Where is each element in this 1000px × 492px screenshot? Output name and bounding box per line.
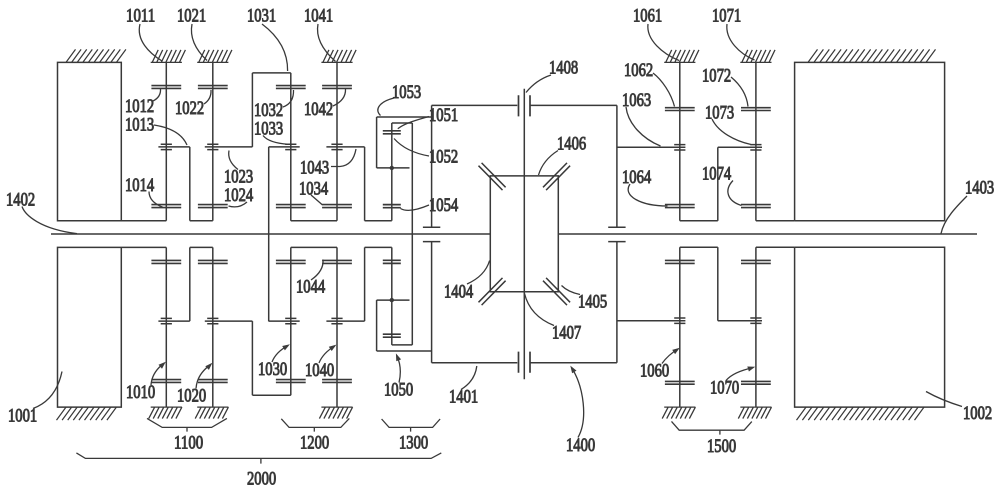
wire sleeve 1043 vertical bbox=[364, 147, 366, 221]
motor block 1001 housing bbox=[58, 247, 167, 407]
synchronizer 1040 bbox=[326, 318, 364, 323]
shaft 1020 bbox=[212, 247, 214, 407]
wire clutch top link bbox=[392, 122, 413, 124]
clutch 1050 plates lower bbox=[383, 334, 401, 337]
wire sleeve 1043 bottom bbox=[365, 220, 392, 222]
svg-text:1402: 1402 bbox=[6, 189, 35, 210]
wire shaft 1071 to right block bbox=[756, 220, 795, 222]
svg-text:1052: 1052 bbox=[429, 146, 458, 167]
synchronizer 1013 bbox=[158, 144, 189, 149]
gear on 1060 upper bbox=[665, 260, 695, 263]
svg-text:1070: 1070 bbox=[710, 377, 739, 398]
wire U-top 1060 bbox=[680, 246, 718, 248]
gear 1042 bbox=[322, 86, 352, 89]
wire clutch mid link bbox=[377, 167, 410, 169]
svg-text:1072: 1072 bbox=[702, 65, 731, 86]
synchronizer 1073 link bbox=[718, 145, 762, 150]
ground 1011 bbox=[151, 50, 186, 63]
svg-text:1022: 1022 bbox=[175, 98, 204, 119]
shaft 1032 body bbox=[290, 73, 292, 221]
shaft 1021 bbox=[212, 62, 214, 220]
shaft 1010 bbox=[165, 247, 167, 407]
wire sleeve 1010 vertical bbox=[189, 247, 191, 321]
svg-text:1405: 1405 bbox=[578, 291, 607, 312]
ground 1041 bbox=[321, 50, 356, 63]
shaft 1071 bbox=[755, 62, 757, 220]
svg-text:1401: 1401 bbox=[449, 386, 478, 407]
wire bracket 1030 bottom bbox=[252, 394, 290, 396]
svg-text:1042: 1042 bbox=[304, 99, 333, 120]
wire sleeve 1040 vertical bbox=[364, 247, 366, 321]
svg-text:1043: 1043 bbox=[300, 157, 329, 178]
svg-text:1034: 1034 bbox=[299, 178, 328, 199]
gear on 1070 lower bbox=[741, 381, 771, 384]
svg-text:1001: 1001 bbox=[8, 405, 37, 426]
svg-text:1062: 1062 bbox=[624, 60, 653, 81]
housing 1401 top edge bbox=[432, 104, 617, 106]
synchronizer 1060 link bbox=[617, 318, 686, 323]
synchronizer 1023 bbox=[205, 144, 253, 149]
svg-text:2000: 2000 bbox=[247, 468, 276, 489]
svg-text:1407: 1407 bbox=[552, 322, 581, 343]
svg-text:1002: 1002 bbox=[963, 403, 992, 424]
svg-text:1071: 1071 bbox=[712, 5, 741, 26]
gear on 1020 upper bbox=[198, 260, 228, 263]
svg-text:1400: 1400 bbox=[566, 435, 595, 456]
gear 1022 bbox=[198, 86, 228, 89]
svg-text:1013: 1013 bbox=[125, 114, 154, 135]
differential cage 1404-1407 square bbox=[490, 176, 558, 292]
shaft 1070 bbox=[755, 247, 757, 407]
gear on 1030 lower bbox=[276, 380, 306, 383]
svg-text:1031: 1031 bbox=[247, 5, 276, 26]
gear on 1020 lower bbox=[198, 380, 228, 383]
svg-text:1500: 1500 bbox=[707, 436, 736, 457]
gear on 1040 lower bbox=[322, 380, 352, 383]
brace 1500 bbox=[672, 421, 752, 434]
synchronizer 1063 link bbox=[617, 145, 686, 150]
clutch drum 1050 left vertical bbox=[376, 300, 378, 351]
wire bracket 1031 top bbox=[252, 72, 290, 74]
housing 1401 right edge upper with T-bar bbox=[608, 105, 625, 227]
gear 1032 bbox=[276, 86, 306, 89]
gear on 1010 upper bbox=[151, 260, 181, 263]
gear 1044 lower bbox=[322, 260, 352, 263]
bevel gear mark top-right bbox=[543, 163, 570, 190]
svg-text:1200: 1200 bbox=[300, 432, 329, 453]
gear 1064 bbox=[665, 205, 695, 208]
clutch drum 1053 left vertical bbox=[376, 117, 378, 168]
svg-text:1100: 1100 bbox=[174, 432, 203, 453]
gear on 1030 upper bbox=[276, 260, 306, 263]
wire clutch mid link bottom bbox=[377, 299, 410, 301]
svg-text:1054: 1054 bbox=[429, 195, 458, 216]
wire clutch bottom link bbox=[392, 344, 413, 346]
clutch pack 1051 plates bbox=[383, 131, 401, 134]
svg-text:1021: 1021 bbox=[177, 5, 206, 26]
gear on 1070 upper bbox=[741, 260, 771, 263]
wire output shaft 1403 main axis right segment bbox=[558, 233, 977, 235]
coupling 1408 top plates bbox=[519, 95, 531, 116]
clutch 1050 shaft vertical bbox=[391, 247, 393, 345]
svg-text:1073: 1073 bbox=[705, 102, 734, 123]
junction dot clutch bottom bbox=[390, 298, 394, 302]
clutch drum 1050 bottom bbox=[377, 350, 432, 352]
svg-text:1024: 1024 bbox=[224, 185, 253, 206]
gear on 1060 lower bbox=[665, 381, 695, 384]
shaft 1061 bbox=[679, 62, 681, 220]
gear 1072 bbox=[741, 108, 771, 111]
svg-text:1041: 1041 bbox=[304, 5, 333, 26]
gear 1034 bbox=[276, 205, 306, 208]
svg-text:1044: 1044 bbox=[296, 276, 325, 297]
svg-text:1074: 1074 bbox=[702, 163, 731, 184]
ground 1020 bbox=[195, 407, 228, 419]
svg-text:1020: 1020 bbox=[177, 385, 206, 406]
junction dot clutch top bbox=[390, 166, 394, 170]
svg-text:1014: 1014 bbox=[125, 175, 154, 196]
housing 1401 bottom edge bbox=[432, 362, 617, 364]
center shaft through differential bbox=[523, 89, 525, 380]
synchronizer 1030 bbox=[269, 318, 300, 323]
brace 1200 bbox=[281, 418, 349, 431]
svg-text:1404: 1404 bbox=[444, 281, 473, 302]
ground 1010 bbox=[149, 407, 182, 419]
ground 1040 bbox=[319, 407, 352, 419]
wire input shaft 1402 main axis left segment bbox=[51, 233, 490, 235]
ground hatch below block 1001 bbox=[57, 407, 117, 420]
wire sleeve 1013 vertical bbox=[189, 147, 191, 221]
gear 1014 bbox=[151, 205, 181, 208]
wire sleeve 1033 vertical crossing axis bbox=[268, 147, 270, 322]
svg-text:1060: 1060 bbox=[640, 360, 669, 381]
svg-text:1051: 1051 bbox=[429, 105, 458, 126]
ground hatch below block 1002 bbox=[797, 407, 925, 420]
brace 2000 bbox=[76, 453, 441, 464]
brace 1300 bbox=[382, 419, 441, 432]
wire U-bottom shafts 1032-1041 bbox=[291, 220, 337, 222]
svg-text:1300: 1300 bbox=[399, 432, 428, 453]
svg-text:1050: 1050 bbox=[384, 379, 413, 400]
gear 1062 bbox=[665, 108, 695, 111]
svg-text:1011: 1011 bbox=[126, 5, 155, 26]
bevel gear mark bottom-right bbox=[543, 278, 570, 305]
shaft 1041 bbox=[336, 62, 338, 220]
shaft 1060 bbox=[679, 247, 681, 407]
svg-text:1064: 1064 bbox=[622, 167, 651, 188]
motor block top-left housing bbox=[58, 62, 167, 220]
svg-text:1010: 1010 bbox=[126, 382, 155, 403]
svg-text:1406: 1406 bbox=[557, 133, 586, 154]
shaft 1030 body bbox=[290, 247, 292, 395]
wire U-top shafts 1030-1040 bbox=[291, 246, 337, 248]
wire sleeve 1010 top bbox=[190, 246, 213, 248]
synchronizer 1020 bbox=[205, 318, 253, 323]
ground 1071 bbox=[740, 50, 775, 63]
housing 1401 right edge lower with T-bar bbox=[608, 242, 625, 363]
clutch pack 1054 plates bbox=[383, 205, 401, 208]
svg-text:1408: 1408 bbox=[549, 57, 578, 78]
svg-text:1053: 1053 bbox=[392, 82, 421, 103]
svg-text:1061: 1061 bbox=[633, 5, 662, 26]
brace 1100 bbox=[147, 418, 227, 431]
svg-text:1403: 1403 bbox=[965, 177, 994, 198]
ground 1061 bbox=[664, 50, 699, 63]
gear 1024 bbox=[198, 205, 228, 208]
shaft 1040 bbox=[336, 247, 338, 407]
wire sleeve 1073 vertical bbox=[717, 147, 719, 221]
ground 1060 bbox=[662, 407, 695, 419]
synchronizer 1033 bbox=[269, 144, 300, 149]
bevel gear mark bottom-left bbox=[479, 278, 506, 305]
block top-right housing bbox=[795, 62, 945, 220]
wire bracket 1031 vertical bbox=[251, 73, 253, 147]
gear 1074 bbox=[741, 205, 771, 208]
wire shaft 1070 to right block bbox=[756, 246, 795, 248]
synchronizer 1010 bbox=[158, 318, 189, 323]
ground hatch above top-left block bbox=[66, 49, 126, 62]
coupling 1408 bottom plates bbox=[519, 352, 531, 373]
svg-text:1033: 1033 bbox=[254, 118, 283, 139]
block 1002 housing bbox=[795, 247, 945, 407]
synchronizer 1070 link bbox=[718, 318, 762, 323]
synchronizer 1043 bbox=[326, 144, 364, 149]
shaft 1011 bbox=[165, 62, 167, 220]
housing 1401 left edge upper with T-bar bbox=[423, 105, 440, 227]
clutch 1050 plates upper bbox=[383, 260, 401, 263]
wire sleeve 1070 vertical bbox=[717, 247, 719, 321]
ground 1070 bbox=[738, 407, 771, 419]
shaft 1052 vertical crossing axis bbox=[411, 123, 413, 345]
clutch drum 1053 top bbox=[377, 116, 432, 118]
clutch shaft 1051-1054 vertical bbox=[391, 123, 393, 221]
gear on 1010 lower bbox=[151, 380, 181, 383]
wire U-bottom 1061 bbox=[680, 220, 718, 222]
housing 1401 left edge lower with T-bar bbox=[423, 242, 440, 363]
gear 1012 bbox=[151, 86, 181, 89]
wire sleeve 1040 top bbox=[365, 246, 392, 248]
ground 1021 bbox=[197, 50, 232, 63]
wire sleeve 1013 bottom bbox=[190, 220, 213, 222]
ground hatch above top-right block bbox=[808, 49, 936, 62]
bevel gear mark top-left bbox=[479, 163, 506, 190]
wire bracket 1030 vertical bbox=[251, 321, 253, 395]
gear 1044 upper bbox=[322, 205, 352, 208]
